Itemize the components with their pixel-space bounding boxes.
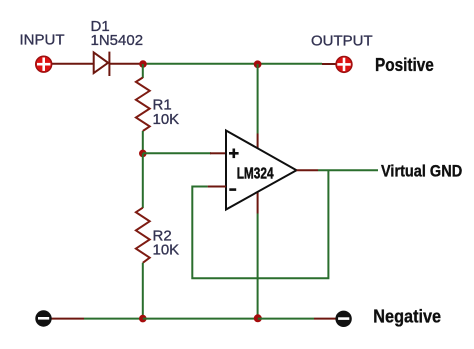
- pin: op-amp output (dark red): [297, 169, 319, 171]
- input terminal (+): [36, 56, 52, 72]
- node B junction dot: [254, 60, 262, 68]
- wire: node C down to R2 (green): [142, 153, 144, 208]
- svg-text:Negative: Negative: [373, 305, 441, 326]
- wire: feedback from minus input (green): [192, 170, 328, 278]
- wire: junction B to output pin (green): [258, 63, 322, 65]
- wire: node B down to V+ pin (green): [257, 64, 259, 134]
- wire: R2 down to bottom rail (green): [142, 263, 144, 319]
- wire: top rail junction A to junction B (green): [143, 63, 258, 65]
- pin: negative terminal left (dark red): [50, 318, 84, 320]
- wire: node A down to R1 (green): [142, 64, 144, 78]
- pin: op-amp plus input (dark red): [210, 152, 226, 154]
- wire: output terminal pin (dark red): [322, 63, 337, 65]
- node E junction dot: [254, 314, 262, 322]
- svg-text:LM324: LM324: [237, 164, 274, 182]
- pin: negative terminal right (dark red): [314, 318, 336, 320]
- svg-text:10K: 10K: [153, 242, 180, 259]
- wire: bottom rail middle (green): [143, 318, 258, 320]
- svg-text:Positive: Positive: [375, 55, 434, 76]
- svg-text:INPUT: INPUT: [20, 32, 65, 49]
- negative terminal right (-): [335, 311, 351, 327]
- op-amp U1 triangle: [226, 131, 297, 210]
- wire: V- pin down to bottom rail (green): [257, 214, 259, 319]
- resistor R2: [136, 208, 150, 263]
- diode D1: [94, 52, 143, 76]
- svg-text:Virtual GND: Virtual GND: [381, 163, 462, 181]
- op-amp plus input marker: [229, 149, 239, 159]
- svg-text:1N5402: 1N5402: [91, 32, 144, 49]
- op-amp minus input marker: [229, 188, 236, 191]
- node A junction dot: [139, 60, 147, 68]
- output terminal (+): [336, 56, 352, 72]
- wire: bottom rail left (green): [84, 318, 143, 320]
- resistor R1: [136, 78, 150, 132]
- svg-text:10K: 10K: [153, 111, 180, 128]
- node C junction dot: [139, 150, 147, 158]
- wire: node C to op-amp plus input (green): [143, 152, 211, 154]
- pin: op-amp minus input (dark red): [208, 186, 226, 188]
- negative terminal left (-): [35, 310, 51, 326]
- wire: input terminal to diode anode (pin, dark red): [50, 63, 94, 65]
- svg-text:OUTPUT: OUTPUT: [311, 32, 373, 49]
- pin: op-amp V+ (dark red, from top): [257, 134, 259, 149]
- wire: bottom rail right (green): [258, 318, 314, 320]
- wire: output to Virtual GND (green): [318, 169, 378, 171]
- pin: op-amp V- (dark red, to bottom): [257, 192, 259, 214]
- wire: R1 to node C (green): [142, 131, 144, 153]
- node D junction dot: [139, 315, 147, 323]
